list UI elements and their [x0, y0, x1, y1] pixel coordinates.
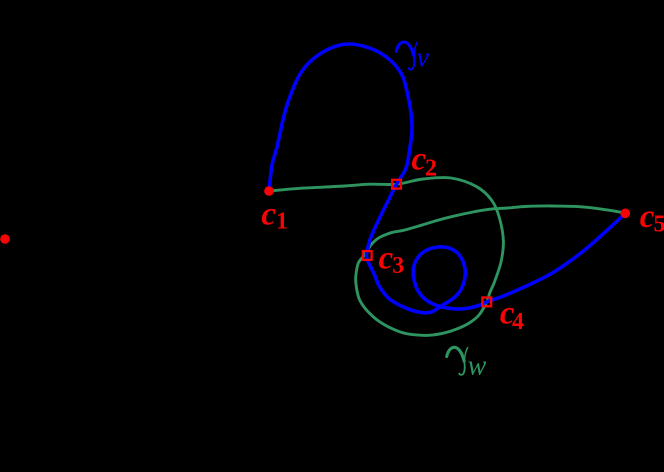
svg-text:w: w [468, 350, 487, 381]
svg-text:4: 4 [512, 309, 524, 335]
svg-text:v: v [417, 43, 430, 74]
svg-text:2: 2 [425, 155, 437, 181]
svg-text:3: 3 [392, 253, 404, 279]
svg-text:1: 1 [276, 209, 288, 235]
svg-text:5: 5 [654, 211, 664, 237]
svg-text:c: c [640, 199, 655, 235]
svg-text:c: c [261, 196, 276, 232]
